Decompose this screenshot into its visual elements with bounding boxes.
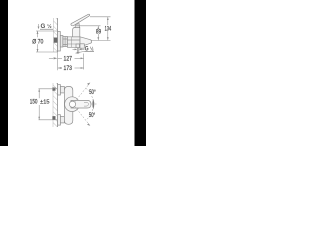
svg-text:±15: ±15 — [40, 99, 49, 105]
svg-text:150: 150 — [30, 99, 38, 105]
svg-text:134: 134 — [105, 25, 112, 32]
svg-text:50°: 50° — [89, 111, 96, 119]
svg-text:173: 173 — [64, 65, 73, 72]
svg-text:89: 89 — [96, 29, 102, 36]
svg-text:127: 127 — [64, 55, 73, 62]
svg-text:G ½: G ½ — [41, 23, 53, 30]
svg-text:50°: 50° — [89, 88, 96, 96]
svg-text:Ø 70: Ø 70 — [32, 38, 43, 45]
